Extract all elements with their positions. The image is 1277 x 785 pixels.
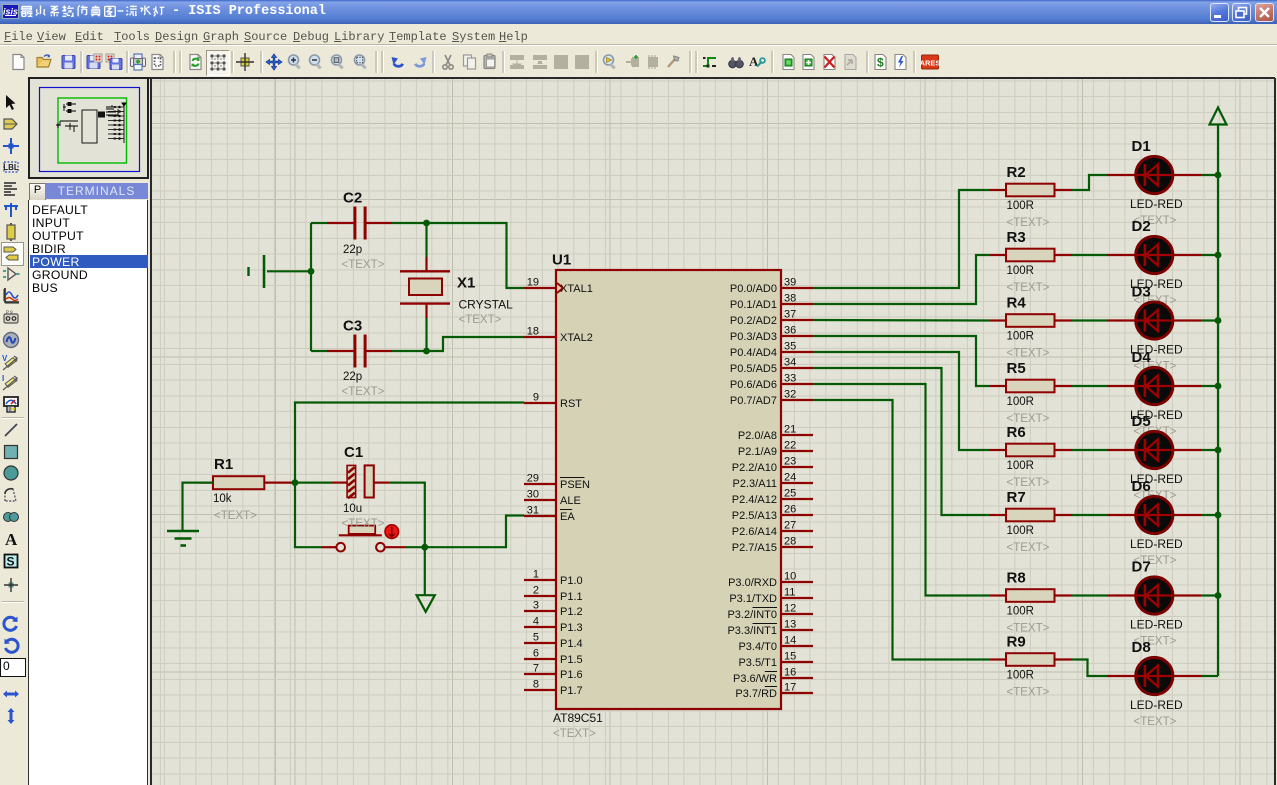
pin 5 (P1.4) — [524, 632, 583, 651]
wire C2 left — [311, 222, 327, 224]
wire D4 to VCC rail — [1201, 385, 1218, 387]
svg-text:31: 31 — [527, 505, 539, 517]
resistor R5 — [990, 360, 1072, 425]
svg-text:D3: D3 — [1132, 284, 1151, 301]
junction rail/D3 — [1215, 317, 1222, 324]
pin 21 (P2.0/A8) — [738, 424, 813, 443]
svg-text:11: 11 — [784, 587, 795, 599]
button actuator marker — [385, 525, 399, 539]
LED D8 (LED-RED) — [1107, 639, 1201, 728]
pin 36 (P0.3/AD3) — [730, 325, 813, 344]
wire D5 to VCC rail — [1201, 449, 1218, 451]
svg-text:<TEXT>: <TEXT> — [1007, 282, 1050, 294]
wire P0.0 to R2 — [813, 190, 990, 288]
svg-text:29: 29 — [527, 473, 539, 485]
svg-text:AT89C51: AT89C51 — [553, 711, 603, 725]
pin 11 (P3.1/TXD) — [729, 587, 813, 606]
svg-text:P3.5/T1: P3.5/T1 — [738, 657, 777, 669]
svg-text:P0.5/AD5: P0.5/AD5 — [730, 363, 777, 375]
svg-text:R7: R7 — [1007, 489, 1026, 506]
svg-text:100R: 100R — [1007, 460, 1035, 472]
svg-text:P2.0/A8: P2.0/A8 — [738, 430, 777, 442]
svg-text:P2.1/A9: P2.1/A9 — [738, 446, 777, 458]
capacitor C3 — [327, 318, 392, 399]
svg-text:19: 19 — [527, 277, 539, 289]
wire junction to button — [295, 483, 322, 548]
svg-text:8: 8 — [533, 679, 539, 691]
pin 32 (P0.7/AD7) — [730, 389, 813, 408]
svg-text:22p: 22p — [343, 244, 362, 256]
wire C3 left — [311, 350, 327, 352]
pin 34 (P0.5/AD5) — [730, 357, 813, 376]
svg-text:37: 37 — [784, 309, 796, 321]
LED D6 (LED-RED) — [1107, 478, 1201, 567]
pin 30 (ALE) — [524, 489, 581, 508]
pin 39 (P0.0/AD0) — [730, 277, 813, 296]
svg-text:R3: R3 — [1007, 229, 1026, 246]
pin 33 (P0.6/AD6) — [730, 373, 813, 392]
svg-text:R6: R6 — [1007, 424, 1026, 441]
capacitor C1 (electrolytic 10u) — [332, 444, 389, 530]
push button (reset) — [322, 525, 405, 552]
svg-text:3: 3 — [533, 600, 539, 612]
svg-text:17: 17 — [784, 682, 796, 694]
svg-text:<TEXT>: <TEXT> — [214, 510, 257, 522]
svg-text:25: 25 — [784, 488, 796, 500]
svg-text:2: 2 — [533, 585, 539, 597]
wire to XTAL2 pin 18 — [427, 337, 525, 351]
svg-text:P1.0: P1.0 — [560, 575, 583, 587]
svg-text:<TEXT>: <TEXT> — [1134, 716, 1177, 728]
ground terminal (crystal oscillator) — [249, 255, 312, 288]
wire D7 to VCC rail — [1201, 594, 1218, 596]
pin 24 (P2.3/A11) — [733, 472, 813, 491]
svg-text:P3.6/WR: P3.6/WR — [733, 673, 777, 685]
wire C3 right — [392, 350, 427, 352]
wire to ground arrow — [424, 547, 426, 595]
resistor R3 — [990, 229, 1072, 294]
svg-text:28: 28 — [784, 536, 796, 548]
svg-text:LED-RED: LED-RED — [1130, 197, 1183, 211]
svg-text:39: 39 — [784, 277, 796, 289]
svg-text:12: 12 — [784, 603, 796, 615]
wire XTAL net vertical — [310, 223, 312, 351]
wire to XTAL1 pin 19 — [427, 223, 525, 288]
pin 19 (XTAL1) — [524, 277, 593, 296]
pin 9 (RST) — [524, 392, 582, 411]
wire P0.2 to R4 — [813, 319, 990, 322]
LED D4 (LED-RED) — [1107, 349, 1201, 438]
svg-text:13: 13 — [784, 619, 796, 631]
wire P0.1 to R3 — [813, 255, 990, 304]
resistor R8 — [990, 570, 1072, 635]
junction ground/XTAL1 net — [308, 268, 315, 275]
pin 14 (P3.4/T0) — [738, 635, 813, 654]
wire R2 to D1 — [1072, 175, 1108, 190]
svg-text:<TEXT>: <TEXT> — [1007, 477, 1050, 489]
pin 35 (P0.4/AD4) — [730, 341, 813, 360]
junction C3/X1/XTAL2 — [423, 348, 430, 355]
svg-text:32: 32 — [784, 389, 796, 401]
svg-text:100R: 100R — [1007, 265, 1035, 277]
svg-text:LED-RED: LED-RED — [1130, 698, 1183, 712]
svg-text:23: 23 — [784, 456, 796, 468]
svg-text:R5: R5 — [1007, 360, 1026, 377]
pin 25 (P2.4/A12) — [732, 488, 813, 507]
power terminal (VCC arrow) — [1210, 108, 1227, 125]
svg-text:XTAL1: XTAL1 — [560, 283, 593, 295]
wire P0.3 to R5 — [813, 336, 990, 386]
pin 10 (P3.0/RXD) — [728, 571, 813, 590]
pin 7 (P1.6) — [524, 663, 583, 682]
pin 2 (P1.1) — [524, 585, 583, 604]
svg-text:C1: C1 — [344, 444, 363, 461]
microcontroller U1 AT89C51 — [552, 252, 781, 741]
LED D7 (LED-RED) — [1107, 559, 1201, 648]
svg-text:P2.6/A14: P2.6/A14 — [732, 526, 777, 538]
svg-text:P3.1/TXD: P3.1/TXD — [729, 593, 777, 605]
svg-text:P0.3/AD3: P0.3/AD3 — [730, 331, 777, 343]
svg-text:14: 14 — [784, 635, 796, 647]
wire R9 to D8 — [1072, 660, 1108, 677]
svg-text:P1.6: P1.6 — [560, 669, 583, 681]
svg-text:10k: 10k — [213, 493, 232, 505]
junction rail/D1 — [1215, 172, 1222, 179]
svg-text:21: 21 — [784, 424, 796, 436]
svg-text:D7: D7 — [1132, 559, 1151, 576]
pin 1 (P1.0) — [524, 569, 583, 588]
svg-text:CRYSTAL: CRYSTAL — [459, 298, 514, 312]
svg-text:100R: 100R — [1007, 525, 1035, 537]
ground terminal (arrow below button) — [417, 595, 435, 612]
svg-text:100R: 100R — [1007, 396, 1035, 408]
svg-text:<TEXT>: <TEXT> — [553, 728, 596, 740]
svg-text:7: 7 — [533, 663, 539, 675]
svg-text:P0.0/AD0: P0.0/AD0 — [730, 283, 777, 295]
svg-text:R4: R4 — [1007, 295, 1027, 312]
svg-text:100R: 100R — [1007, 200, 1035, 212]
svg-text:26: 26 — [784, 504, 796, 516]
svg-text:C3: C3 — [343, 318, 362, 335]
svg-text:D6: D6 — [1132, 478, 1151, 495]
svg-text:PSEN: PSEN — [560, 479, 590, 491]
pin 16 (P3.6/WR) — [733, 667, 813, 686]
svg-text:D1: D1 — [1132, 138, 1151, 155]
wire button to EA pin 31 — [405, 516, 524, 548]
svg-text:6: 6 — [533, 648, 539, 660]
capacitor C2 — [327, 190, 392, 272]
svg-text:LED-RED: LED-RED — [1130, 618, 1183, 632]
svg-text:<TEXT>: <TEXT> — [1007, 348, 1050, 360]
svg-text:D4: D4 — [1132, 349, 1152, 366]
svg-text:P0.6/AD6: P0.6/AD6 — [730, 379, 777, 391]
svg-text:D2: D2 — [1132, 218, 1151, 235]
svg-text:P2.7/A15: P2.7/A15 — [732, 542, 777, 554]
pin 28 (P2.7/A15) — [732, 536, 813, 555]
svg-text:ALE: ALE — [560, 495, 581, 507]
svg-text:9: 9 — [533, 392, 539, 404]
svg-text:P0.7/AD7: P0.7/AD7 — [730, 395, 777, 407]
wire X1 bottom lead — [425, 318, 427, 351]
svg-text:30: 30 — [527, 489, 539, 501]
svg-text:22p: 22p — [343, 371, 362, 383]
svg-text:10: 10 — [784, 571, 796, 583]
wire P0.4 to R6 — [813, 352, 990, 450]
pin 31 (EA) — [524, 505, 575, 524]
svg-text:LED-RED: LED-RED — [1130, 537, 1183, 551]
svg-text:<TEXT>: <TEXT> — [1007, 217, 1050, 229]
wire R1 to C1 — [292, 482, 332, 484]
svg-text:XTAL2: XTAL2 — [560, 332, 593, 344]
svg-text:P0.4/AD4: P0.4/AD4 — [730, 347, 777, 359]
ground (below R1) — [167, 531, 199, 546]
pin 37 (P0.2/AD2) — [730, 309, 813, 328]
svg-text:P1.7: P1.7 — [560, 685, 583, 697]
junction rail/D6 — [1215, 512, 1222, 519]
svg-text:P3.2/INT0: P3.2/INT0 — [727, 609, 777, 621]
pin 29 (PSEN) — [524, 473, 590, 492]
wire R1 to ground — [183, 483, 199, 530]
junction rail/D2 — [1215, 252, 1222, 259]
svg-text:P0.2/AD2: P0.2/AD2 — [730, 315, 777, 327]
junction button/C1/EA/ground — [421, 544, 428, 551]
svg-text:U1: U1 — [552, 252, 571, 269]
svg-text:P3.0/RXD: P3.0/RXD — [728, 577, 777, 589]
svg-text:34: 34 — [784, 357, 796, 369]
svg-text:P1.4: P1.4 — [560, 638, 583, 650]
svg-text:RST: RST — [560, 398, 582, 410]
wire P0.6 to R8 — [813, 384, 990, 596]
svg-text:R2: R2 — [1007, 164, 1026, 181]
svg-text:EA: EA — [560, 511, 575, 523]
wire R4 to D3 — [1072, 319, 1108, 321]
wire D6 to VCC rail — [1201, 514, 1218, 516]
svg-text:D5: D5 — [1132, 413, 1151, 430]
pin 12 (P3.2/INT0) — [727, 603, 813, 622]
svg-text:P2.3/A11: P2.3/A11 — [733, 478, 777, 490]
svg-text:15: 15 — [784, 651, 796, 663]
svg-text:18: 18 — [527, 326, 539, 338]
svg-text:1: 1 — [533, 569, 539, 581]
svg-text:<TEXT>: <TEXT> — [342, 259, 385, 271]
junction rail/D5 — [1215, 447, 1222, 454]
pin 27 (P2.6/A14) — [732, 520, 813, 539]
wire R7 to D6 — [1072, 514, 1108, 516]
svg-text:100R: 100R — [1007, 670, 1035, 682]
svg-text:P3.3/INT1: P3.3/INT1 — [727, 625, 777, 637]
wire RST pin 9 net — [295, 403, 524, 483]
power rail (VCC) — [1217, 125, 1219, 677]
svg-text:38: 38 — [784, 293, 796, 305]
wire D3 to VCC rail — [1201, 319, 1218, 321]
wire R1 left stub — [198, 482, 213, 484]
pin 6 (P1.5) — [524, 648, 583, 667]
svg-text:22: 22 — [784, 440, 796, 452]
svg-text:100R: 100R — [1007, 331, 1035, 343]
wire P0.7 to R9 — [813, 400, 990, 660]
svg-text:4: 4 — [533, 616, 539, 628]
svg-text:P3.7/RD: P3.7/RD — [735, 688, 777, 700]
svg-text:P3.4/T0: P3.4/T0 — [738, 641, 777, 653]
pin 8 (P1.7) — [524, 679, 583, 698]
pin 13 (P3.3/INT1) — [727, 619, 813, 638]
svg-text:P1.5: P1.5 — [560, 654, 583, 666]
svg-text:P1.3: P1.3 — [560, 622, 583, 634]
LED D5 (LED-RED) — [1107, 413, 1201, 502]
svg-text:36: 36 — [784, 325, 796, 337]
resistor R1 — [198, 456, 292, 522]
wire R3 to D2 — [1072, 254, 1108, 256]
svg-text:P2.5/A13: P2.5/A13 — [732, 510, 777, 522]
junction rail/D7 — [1215, 592, 1222, 599]
wire R8 to D7 — [1072, 594, 1108, 596]
pin 4 (P1.3) — [524, 616, 583, 635]
wire R5 to D4 — [1072, 385, 1108, 387]
svg-text:10u: 10u — [343, 503, 362, 515]
wire X1 top lead — [425, 223, 427, 257]
wire D1 to VCC rail — [1201, 174, 1218, 176]
LED D2 (LED-RED) — [1107, 218, 1201, 307]
svg-text:D8: D8 — [1132, 639, 1151, 656]
svg-text:R1: R1 — [214, 456, 233, 473]
wire C2 right — [392, 222, 427, 224]
svg-text:R9: R9 — [1007, 634, 1026, 651]
svg-text:24: 24 — [784, 472, 796, 484]
svg-text:<TEXT>: <TEXT> — [1007, 542, 1050, 554]
pin 26 (P2.5/A13) — [732, 504, 813, 523]
junction RST/R1/C1 — [292, 479, 299, 486]
wire R6 to D5 — [1072, 449, 1108, 451]
svg-text:P0.1/AD1: P0.1/AD1 — [730, 299, 777, 311]
svg-text:35: 35 — [784, 341, 796, 353]
svg-text:C2: C2 — [343, 190, 362, 207]
pin 38 (P0.1/AD1) — [730, 293, 813, 312]
resistor R2 — [990, 164, 1072, 229]
resistor R4 — [990, 295, 1072, 360]
wire P0.5 to R7 — [813, 368, 990, 515]
svg-text:100R: 100R — [1007, 606, 1035, 618]
junction rail/D4 — [1215, 383, 1222, 390]
junction C2/X1/XTAL1 — [423, 220, 430, 227]
svg-text:5: 5 — [533, 632, 539, 644]
svg-text:<TEXT>: <TEXT> — [1007, 687, 1050, 699]
svg-text:<TEXT>: <TEXT> — [459, 314, 502, 326]
svg-text:16: 16 — [784, 667, 796, 679]
pin 15 (P3.5/T1) — [738, 651, 813, 670]
pin 3 (P1.2) — [524, 600, 583, 619]
svg-text:33: 33 — [784, 373, 796, 385]
svg-text:P2.2/A10: P2.2/A10 — [732, 462, 777, 474]
wire C1 to button node — [389, 483, 424, 548]
svg-text:P1.2: P1.2 — [560, 606, 583, 618]
wire D8 to VCC rail — [1201, 675, 1218, 677]
crystal X1 — [400, 257, 513, 326]
svg-text:27: 27 — [784, 520, 796, 532]
wire D2 to VCC rail — [1201, 254, 1218, 256]
resistor R7 — [990, 489, 1072, 554]
svg-text:X1: X1 — [457, 275, 475, 292]
svg-text:P2.4/A12: P2.4/A12 — [732, 494, 777, 506]
pin 23 (P2.2/A10) — [732, 456, 813, 475]
resistor R9 — [990, 634, 1072, 699]
LED D1 (LED-RED) — [1107, 138, 1201, 227]
svg-text:R8: R8 — [1007, 570, 1026, 587]
svg-text:<TEXT>: <TEXT> — [342, 518, 385, 530]
resistor R6 — [990, 424, 1072, 489]
pin 22 (P2.1/A9) — [738, 440, 813, 459]
svg-text:P1.1: P1.1 — [560, 591, 583, 603]
pin 18 (XTAL2) — [524, 326, 593, 345]
svg-text:<TEXT>: <TEXT> — [342, 386, 385, 398]
LED D3 (LED-RED) — [1107, 284, 1201, 373]
pin 17 (P3.7/RD) — [735, 682, 813, 701]
